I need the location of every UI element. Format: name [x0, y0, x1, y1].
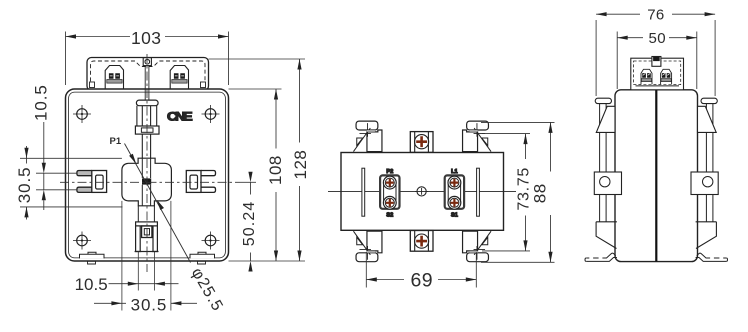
mounting hole bottom-left	[73, 232, 91, 250]
front view: terminal cover	[87, 58, 209, 91]
dim 69 line	[366, 279, 476, 281]
dim 108 line	[275, 89, 277, 261]
svg-text:P1: P1	[110, 136, 122, 147]
left slot	[77, 171, 107, 193]
cover terminal clamp left	[105, 66, 123, 90]
dim 128 line	[299, 59, 301, 261]
left dim 10.5 extension lines	[36, 173, 77, 190]
svg-text:76: 76	[647, 7, 665, 24]
svg-text:69: 69	[411, 270, 434, 292]
bottom dim 30.5 line	[94, 302, 197, 304]
middle view mounting foot top-left	[353, 121, 382, 152]
dim 69 extension lines	[366, 252, 476, 288]
terminal group S1	[445, 175, 464, 209]
bottom dim 10.5 line	[109, 283, 179, 285]
middle view bottom screw housing	[410, 231, 433, 252]
svg-text:50.24: 50.24	[241, 201, 258, 247]
primary bar through window	[142, 158, 150, 178]
left dim 10.5 line	[43, 122, 45, 210]
mounting hole bottom-right	[202, 232, 220, 250]
side rail right	[691, 98, 728, 261]
left dim 30.5 extension lines	[20, 158, 123, 207]
svg-text:CNE: CNE	[167, 110, 193, 123]
svg-text:128: 128	[291, 150, 310, 180]
dim 88 line	[550, 122, 552, 262]
right slot	[186, 171, 215, 193]
side view parting line (primary bar edge)	[655, 66, 657, 261]
dim 50 line	[617, 37, 697, 39]
svg-text:S1: S1	[451, 213, 458, 219]
cover terminal clamp right	[170, 66, 188, 90]
svg-text:30.5: 30.5	[131, 296, 168, 315]
middle view left slot	[362, 168, 365, 216]
svg-text:10.5: 10.5	[32, 84, 51, 121]
middle view right slot	[477, 168, 480, 216]
svg-text:50: 50	[649, 30, 667, 47]
dim 128 extension lines	[209, 59, 306, 261]
bottom feet tabs	[80, 252, 215, 264]
cover hidden edge dashed	[91, 61, 206, 88]
front vertical centre line	[146, 54, 148, 272]
cover top screw	[143, 58, 151, 66]
dim 50.24 line	[250, 182, 252, 261]
cover corner tab left	[90, 82, 95, 88]
middle view mounting foot bottom-right	[463, 231, 492, 262]
svg-text:30.5: 30.5	[15, 167, 34, 204]
dim 103 line	[66, 36, 229, 38]
terminal group S2	[380, 175, 399, 209]
middle view mounting foot top-right	[463, 121, 492, 152]
dim 50.24 extension	[240, 181, 256, 183]
svg-text:108: 108	[266, 155, 285, 185]
primary bar collar	[135, 126, 159, 134]
svg-text:L1: L1	[451, 169, 458, 175]
mounting hole top-left	[73, 105, 91, 123]
dim 73.75 extension lines	[482, 134, 530, 251]
svg-text:10.5: 10.5	[75, 275, 108, 294]
middle view centre mark	[415, 187, 428, 196]
primary bar upper stem	[145, 66, 149, 100]
svg-text:P2: P2	[386, 169, 393, 175]
svg-text:103: 103	[131, 28, 161, 48]
front horizontal centre line	[60, 181, 240, 183]
middle view mounting foot bottom-left	[353, 231, 382, 262]
middle view top screw housing	[410, 132, 433, 153]
bar centre block	[142, 178, 151, 184]
side terminal block	[631, 58, 684, 90]
centre window (circle 25.5)	[122, 158, 171, 206]
block clamps	[641, 69, 652, 84]
middle view centre line	[328, 190, 516, 192]
svg-text:88: 88	[531, 183, 550, 203]
side rail left	[585, 98, 622, 261]
side view body	[615, 90, 698, 262]
P1 / dia 25.5 leader line	[125, 144, 191, 263]
dim 103 extension lines	[66, 32, 229, 86]
dim 73.75 line	[525, 134, 527, 251]
left dim 30.5 line	[26, 146, 28, 220]
dim 88 extension lines	[481, 122, 555, 262]
dim 108 extension line	[229, 88, 282, 90]
cover corner tab right	[201, 82, 206, 88]
primary bar lower stem	[142, 134, 150, 158]
svg-text:S2: S2	[386, 213, 393, 219]
bottom dim extension lines	[122, 201, 171, 311]
primary bar top cap	[136, 100, 158, 106]
middle view body	[341, 153, 504, 231]
front view main body	[66, 89, 229, 261]
bottom bracket	[135, 206, 159, 252]
dim 50 extension lines	[617, 32, 697, 90]
block top cap	[652, 57, 661, 67]
dim 76 extension lines	[596, 20, 715, 96]
mounting hole top-right	[202, 105, 220, 123]
dim 76 line	[596, 13, 715, 15]
svg-text:φ25.5: φ25.5	[188, 265, 226, 315]
